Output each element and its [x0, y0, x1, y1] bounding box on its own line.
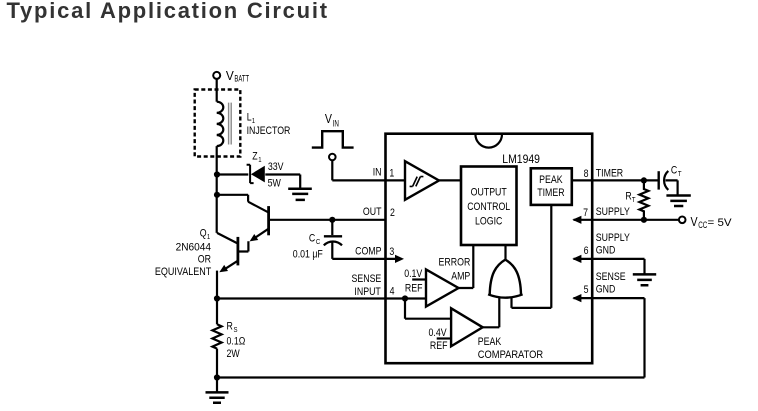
svg-text:0.4V: 0.4V	[429, 327, 447, 339]
svg-text:SUPPLY: SUPPLY	[596, 232, 630, 244]
svg-text:V: V	[226, 69, 235, 83]
svg-text:EQUIVALENT: EQUIVALENT	[155, 266, 211, 278]
svg-text:V: V	[691, 215, 698, 229]
svg-text:CONTROL: CONTROL	[467, 201, 510, 213]
svg-text:C: C	[671, 165, 677, 177]
svg-text:2: 2	[390, 207, 395, 219]
svg-text:REF: REF	[430, 340, 448, 352]
svg-text:6: 6	[584, 245, 589, 257]
svg-text:BATT: BATT	[234, 73, 249, 84]
svg-text:INPUT: INPUT	[354, 286, 380, 298]
svg-text:IN: IN	[373, 167, 382, 179]
svg-text:5W: 5W	[268, 178, 282, 190]
svg-text:CC: CC	[698, 220, 707, 230]
svg-text:GND: GND	[596, 244, 616, 256]
svg-text:C: C	[309, 233, 315, 245]
svg-text:LM1949: LM1949	[502, 153, 540, 166]
svg-text:SENSE: SENSE	[596, 271, 626, 283]
svg-text:0.01 μF: 0.01 μF	[293, 249, 323, 261]
svg-text:4: 4	[390, 286, 395, 298]
svg-text:1: 1	[258, 156, 262, 164]
svg-text:0.1Ω: 0.1Ω	[227, 336, 246, 348]
svg-text:5: 5	[584, 284, 589, 296]
svg-text:AMP: AMP	[451, 271, 470, 283]
svg-text:IN: IN	[333, 118, 339, 128]
svg-text:COMP: COMP	[355, 246, 382, 258]
svg-text:COMPARATOR: COMPARATOR	[478, 349, 543, 361]
svg-text:2W: 2W	[227, 348, 241, 360]
svg-text:OUT: OUT	[363, 206, 382, 218]
svg-text:REF: REF	[405, 283, 423, 295]
svg-text:PEAK: PEAK	[478, 336, 502, 348]
svg-text:1: 1	[389, 168, 394, 180]
svg-text:SENSE: SENSE	[351, 273, 381, 285]
svg-text:ERROR: ERROR	[439, 257, 471, 269]
svg-text:8: 8	[584, 168, 589, 180]
svg-text:= 5V: = 5V	[708, 217, 733, 229]
svg-text:0.1V: 0.1V	[404, 268, 422, 280]
svg-text:OR: OR	[198, 254, 211, 266]
svg-text:INJECTOR: INJECTOR	[247, 125, 291, 137]
svg-text:3: 3	[389, 246, 394, 258]
svg-text:33V: 33V	[268, 161, 284, 173]
svg-text:R: R	[227, 321, 233, 333]
svg-text:LOGIC: LOGIC	[475, 216, 502, 228]
svg-text:Z: Z	[252, 150, 257, 162]
svg-text:7: 7	[583, 207, 588, 219]
svg-text:C: C	[316, 238, 320, 246]
svg-text:1: 1	[252, 118, 256, 126]
svg-text:GND: GND	[596, 284, 616, 296]
svg-text:TIMER: TIMER	[596, 168, 623, 180]
svg-text:R: R	[625, 191, 631, 203]
svg-text:T: T	[632, 196, 636, 204]
svg-text:PEAK: PEAK	[539, 174, 563, 186]
svg-text:SUPPLY: SUPPLY	[596, 206, 630, 218]
svg-text:TIMER: TIMER	[537, 187, 564, 199]
svg-text:V: V	[325, 112, 332, 126]
svg-text:Q: Q	[200, 228, 207, 240]
svg-text:Typical Application Circuit: Typical Application Circuit	[7, 0, 329, 23]
svg-text:2N6044: 2N6044	[176, 241, 212, 253]
svg-text:T: T	[678, 170, 682, 178]
svg-text:S: S	[234, 326, 238, 334]
svg-text:OUTPUT: OUTPUT	[471, 187, 507, 199]
